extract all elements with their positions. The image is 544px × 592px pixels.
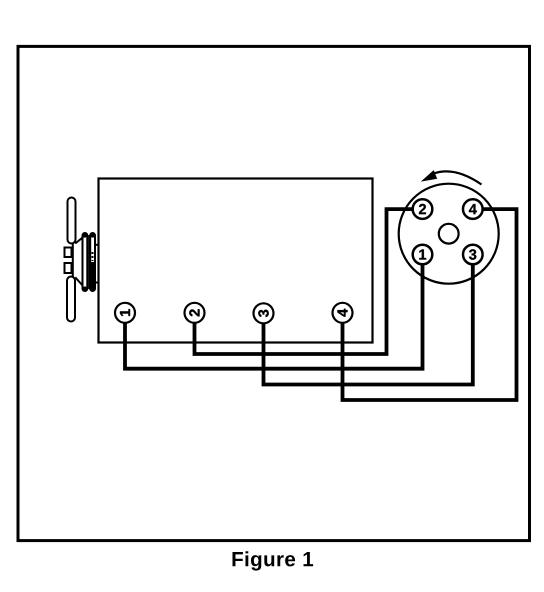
pulley-to-block connector upper [95,244,100,246]
fan blade stem [72,243,74,277]
pulley sheave end blobs [82,232,87,237]
fan bracket upper [65,248,72,258]
spark plug wire W4: terminal 4 to cylinder 4 [343,209,517,400]
cylinder 2 [185,303,205,323]
fan bottom blade [67,277,75,322]
engine block rectangle [99,179,373,343]
distributor terminal 2 [413,199,433,219]
cylinder 3 [254,303,274,323]
pulley middle line [88,235,90,289]
distributor cap body [399,184,499,284]
pulley belt dark fill [91,262,95,289]
rotation arrow head [423,171,437,181]
spark plug wire W1: terminal 1 to cylinder 1 [125,264,423,369]
fan bracket lower [65,263,72,273]
rotation arrow arc [433,171,482,184]
pulley left sheave [83,233,88,291]
outer figure border [18,46,530,540]
distributor terminal 3 [463,245,483,265]
distributor terminal 4 [463,199,483,219]
pulley-to-block connector lower [95,282,100,284]
spark plug wire W2: terminal 2 to cylinder 2 [195,209,413,354]
distributor terminal 1 [413,245,433,265]
caption: Figure 1 [232,551,313,570]
pulley right sheave [90,233,95,291]
fan-hub diagonal lower [75,277,83,286]
fan top blade [68,198,76,244]
cylinder 4 [333,303,353,323]
distributor rotor center [439,224,459,244]
cylinder 1 [115,303,135,323]
fan-hub diagonal upper [75,237,83,244]
spark plug wire W3: terminal 3 to cylinder 3 [264,264,473,385]
pulley groove dashes [92,252,94,261]
